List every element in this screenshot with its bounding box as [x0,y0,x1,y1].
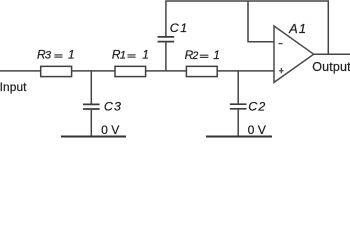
svg-text:0 V: 0 V [248,123,267,137]
svg-text:Input: Input [0,80,27,94]
svg-text:C2: C2 [248,100,266,114]
svg-text:R1: R1 [112,48,126,62]
svg-text:C3: C3 [104,100,122,114]
svg-text:1: 1 [68,48,75,62]
svg-text:R2: R2 [185,48,199,62]
svg-text:Output: Output [312,60,350,74]
svg-text:1: 1 [213,48,220,62]
svg-text:C1: C1 [170,21,189,35]
svg-text:1: 1 [142,48,149,62]
svg-text:R3: R3 [37,48,52,62]
svg-text:A1: A1 [288,21,307,36]
svg-text:0 V: 0 V [101,123,120,137]
